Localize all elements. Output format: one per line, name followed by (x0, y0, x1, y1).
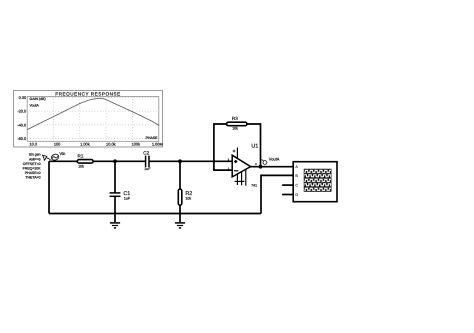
svg-text:10k: 10k (78, 165, 84, 169)
svg-text:VoutA: VoutA (30, 103, 40, 107)
op-amp + marker (234, 160, 237, 163)
svg-text:R1: R1 (78, 154, 84, 159)
junction node C1 top (113, 159, 117, 163)
svg-text:FREQ=10K: FREQ=10K (23, 167, 42, 171)
y axis labels (17, 95, 27, 141)
capacitor C1 (110, 193, 121, 196)
scope pin C stub (283, 184, 294, 186)
svg-text:D: D (295, 193, 298, 197)
svg-text:C: C (295, 184, 298, 188)
plot area border (27, 97, 159, 142)
wire: R2 vertical top (179, 161, 181, 189)
svg-text:10.0k: 10.0k (106, 142, 116, 147)
svg-text:1.00k: 1.00k (80, 142, 90, 147)
wire: riser to scope B (261, 175, 293, 213)
op-amp V+ pin (236, 148, 238, 159)
svg-text:1uF: 1uF (124, 196, 131, 200)
test point VoutA (262, 159, 267, 164)
grid horizontals (27, 98, 159, 139)
wire: source drop left rail (48, 161, 50, 213)
wire: R1 to C2 (93, 160, 145, 162)
wire: bottom return rail (49, 213, 261, 215)
V+ plus tick (233, 150, 236, 153)
op-amp - marker (234, 170, 238, 172)
generator VG1 parameter text (23, 153, 42, 180)
svg-text:OFFSET=0: OFFSET=0 (23, 162, 41, 166)
op-amp lower pins (235, 169, 246, 186)
svg-text:Sin gen: Sin gen (29, 153, 41, 157)
grid verticals (54, 97, 133, 142)
wire: C2 to op-amp + input (149, 160, 232, 162)
svg-text:100k: 100k (132, 142, 140, 147)
wire: C1 to ground (114, 196, 116, 222)
svg-text:PHASE: PHASE (146, 136, 159, 140)
svg-text:1uF: 1uF (144, 167, 151, 171)
ground under C1 (110, 223, 120, 228)
wire: feedback right vertical (247, 124, 261, 167)
svg-text:VoutA: VoutA (269, 157, 280, 162)
wire: source corner to R1 (49, 160, 77, 162)
x axis labels (29, 142, 162, 147)
frequency response diagram frame (14, 91, 163, 148)
response curve (27, 98, 159, 129)
svg-text:AMP=5: AMP=5 (29, 157, 41, 161)
resistor R1 (77, 160, 93, 164)
scope pin D stub (283, 194, 294, 196)
svg-text:10k: 10k (232, 127, 238, 131)
op-amp U1 (232, 155, 250, 177)
resistor R2 (178, 189, 182, 205)
svg-text:THETA=0: THETA=0 (25, 176, 40, 180)
pin C terminal (282, 184, 284, 186)
wire: feedback left vertical (214, 124, 232, 170)
svg-text:100: 100 (54, 142, 61, 147)
svg-text:Vin: Vin (59, 151, 66, 156)
wire: op-amp output (251, 166, 294, 168)
svg-text:FREQUENCY RESPONSE: FREQUENCY RESPONSE (55, 91, 120, 96)
voltage source Vin symbol (43, 153, 60, 161)
wire: R2 to ground (179, 205, 181, 222)
svg-text:0.00: 0.00 (19, 95, 27, 100)
pin D terminal (282, 194, 284, 196)
svg-text:1.00M: 1.00M (152, 142, 163, 147)
junction node R2 top (178, 159, 182, 163)
svg-text:GAIN (dB): GAIN (dB) (30, 97, 46, 101)
svg-text:741: 741 (251, 183, 257, 187)
svg-text:R3: R3 (232, 116, 238, 121)
ground under R2 (175, 223, 185, 228)
capacitor C2 (146, 156, 149, 168)
svg-text:-60.0: -60.0 (17, 136, 27, 141)
svg-text:C2: C2 (143, 151, 149, 156)
svg-text:-20.0: -20.0 (17, 109, 27, 114)
svg-text:10k: 10k (185, 196, 191, 200)
resistor R3 (227, 122, 247, 126)
wire: C1 vertical (114, 161, 116, 192)
junction node output (259, 165, 263, 169)
svg-text:10.0: 10.0 (29, 142, 37, 147)
oscilloscope OSC1 (293, 162, 337, 202)
svg-text:U1: U1 (251, 143, 258, 149)
scope screen (304, 169, 331, 192)
svg-text:-40.0: -40.0 (17, 122, 27, 127)
svg-text:PHASE=0: PHASE=0 (25, 171, 41, 175)
